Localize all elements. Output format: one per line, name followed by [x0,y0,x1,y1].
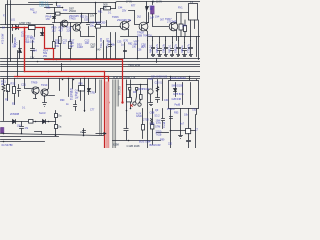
wire Q502 collector [129,11,135,22]
svg-text:TR10: TR10 [41,83,48,87]
svg-text:R67 0.1: R67 0.1 [169,44,172,53]
svg-text:R77: R77 [131,5,136,8]
svg-text:C25 01: C25 01 [155,82,163,84]
resistor R509 [53,42,56,49]
wire x195.3 [195,115,197,149]
highlight pink band [106,82,109,149]
svg-text:(7B): (7B) [91,92,96,94]
wire red V1 x24.6 [24,28,26,72]
junction dots on buses [17,58,139,142]
svg-text:10k: 10k [30,39,35,43]
wire x70 [70,23,72,60]
svg-text:2W: 2W [70,44,74,48]
transistor Q504 [169,22,178,31]
wire Q502 emitter down [121,30,138,37]
wire x17.3 [17,51,19,77]
vertical gray highlighted buses [100,80,132,149]
resistor R551 zigzag [156,87,158,92]
svg-text:4k7: 4k7 [33,12,38,15]
lower labels [1,75,175,111]
wire x137.7 down [137,37,139,59]
bus L2 y61.6 [1,61,201,63]
svg-text:Da: Da [58,124,62,128]
node J20 [56,59,58,61]
node J6c [95,2,97,4]
wire x73 [72,79,74,89]
capacitor C508 [87,23,90,25]
svg-text:C/7B BUS: C/7B BUS [173,94,184,96]
wire vertical left x10 [10,1,12,62]
svg-text:BLD/C3R: BLD/C3R [150,143,161,147]
node J8b [68,78,70,80]
ground G2 [179,131,183,139]
node J26 [17,76,19,78]
wire x68.4 [68,79,70,97]
svg-text:2k2: 2k2 [137,16,142,19]
node JD1 [35,121,37,123]
node J31 [130,108,132,110]
node J8c [84,110,86,112]
svg-text:R69 1u: R69 1u [181,45,184,53]
resistor R511 [69,42,72,49]
svg-text:C36: C36 [137,49,142,52]
wire x157 [156,59,158,63]
connector P501 (purple) [151,6,155,14]
wire q504 collector [177,13,189,23]
resistor R553 zigzag [151,119,153,125]
wire red bus D [15,76,109,78]
wire base Q501 [71,26,73,28]
capacitor C518 [189,41,193,57]
svg-text:C-call: C-call [163,121,166,128]
transistor Q506 [41,89,48,96]
svg-text:D50: D50 [101,20,106,24]
svg-text:PR-6d: PR-6d [142,88,149,91]
node J24 [96,58,98,60]
capacitor C511 [124,51,127,52]
node J1 [115,2,117,4]
node J10 [188,130,190,132]
svg-text:1/W: 1/W [46,18,51,21]
wire r520 [101,8,116,10]
resistor R546 [142,125,145,131]
svg-text:R99: R99 [160,139,165,142]
svg-text:C04: C04 [32,48,37,52]
top-left area components [13,25,44,77]
ground G3 [149,95,153,106]
wire top row verticals [153,77,197,115]
diode D506 [19,49,22,53]
wire lead y27.5 [0,27,14,29]
diode D51 [16,26,19,30]
node J11 [3,133,5,135]
node J25 [137,58,139,60]
wire x88 [88,14,90,37]
mid labels [0,33,146,67]
connector P502 (purple) [1,128,4,133]
node J34 [152,1,154,3]
transistor Q501 [73,24,80,31]
svg-text:0.70: 0.70 [156,122,161,125]
svg-text:4u7: 4u7 [180,123,185,126]
wire q504 emitter [176,31,178,41]
node J41 [189,76,191,78]
lamp L1 [133,102,136,105]
wire red V4 [122,60,124,103]
wire x143 [142,109,144,139]
component CN1 [55,114,58,118]
capacitor C528 [83,131,86,133]
capacitor C526 [20,122,24,134]
svg-text:10V: 10V [90,15,95,18]
red end blob V4 [121,101,123,103]
bus L6 y76.3 [1,76,201,78]
wire x95.5 [95,79,97,93]
wire r540 stubs [80,79,82,101]
resistor R540 [79,86,85,92]
svg-text:4k7: 4k7 [59,28,64,32]
module box U502 [169,81,199,109]
svg-text:2W02: 2W02 [69,9,77,13]
svg-text:2W: 2W [43,54,47,58]
svg-text:2W: 2W [91,45,95,49]
capacitor C521 [18,85,21,97]
transistor Q503 [139,22,148,31]
node J27 [128,140,130,142]
upper mid-right components [95,1,154,59]
svg-text:25V: 25V [122,10,127,13]
wire x89 [88,79,90,95]
wire net base Q502 [95,21,121,27]
node J6 [62,7,64,9]
node J23 [70,59,72,61]
node JD2 [48,121,50,123]
svg-text:Ga: Ga [58,113,62,117]
vertical arrow feed [146,2,148,7]
svg-text:GHST PBC: GHST PBC [19,22,31,25]
svg-text:S7M: S7M [155,125,160,129]
node J30 [126,110,128,112]
capacitor C515 [171,43,174,57]
wire x96 [96,23,98,59]
wire bus y137 [1,137,59,140]
right lower cluster [148,76,199,149]
bottom-left area [1,111,161,143]
svg-text:B+ 12.5V: B+ 12.5V [153,1,163,3]
wire red H1 y27.5 [13,27,45,29]
cap row labels [150,43,191,53]
box comp2 [136,88,138,91]
wire under relay [191,20,199,60]
resistor R508 [56,12,61,15]
top-center components [53,2,97,60]
gray band 1 [113,80,117,149]
wire arrow cont [147,2,153,23]
center-right mid cluster [127,80,148,149]
box R528 [179,24,183,30]
bus L7 y79 [1,78,201,80]
capacitor C516 [177,41,181,57]
wire x19.8 [19,41,21,59]
wire x84.2 [84,79,86,112]
svg-text:C2B R4B: C2B R4B [172,99,182,101]
svg-text:27C945: 27C945 [167,20,177,24]
svg-text:TRT_RB: TRT_RB [118,86,121,96]
ground G1b [43,97,47,107]
wire x125 [124,43,126,59]
node J2 [24,27,26,29]
svg-text:04 5478F: 04 5478F [2,143,14,147]
node J3 [34,27,36,29]
relay box K501 [189,4,198,21]
node J12 [3,141,5,143]
bottom labels [2,111,167,148]
extra scattered labels [2,5,199,146]
svg-text:C12B 2948: C12B 2948 [127,144,141,148]
box comp1 [129,88,131,91]
wire lamp net [130,91,141,103]
resistor R532 [13,87,16,94]
svg-text:TR09: TR09 [31,80,38,84]
wire stub x56.5 [56,3,58,6]
svg-text:L01: L01 [11,19,16,22]
svg-text:C77: C77 [90,109,95,112]
extra vertical nets mid [109,33,157,63]
capacitor C531 [156,95,160,103]
labels layer [13,0,194,48]
box DB1 [29,120,34,124]
right capacitor row [149,37,201,57]
wire x83.7 [83,129,85,136]
capacitor C504 [31,49,35,51]
capacitor C513 [158,43,162,57]
wire bus y133.6 [1,132,105,136]
right module labels [148,78,186,107]
node J15 [55,135,57,137]
box D530 [186,129,191,134]
svg-text:1W: 1W [55,44,59,48]
node J14 [83,135,85,137]
red tick mark [131,105,133,107]
node J9 [170,130,172,132]
capacitor C533 [162,109,165,129]
wire vertical left x7.3 [7,1,9,67]
wire cap stems top [153,37,197,57]
wire bus y140.4 [1,141,161,142]
svg-text:C70 47u: C70 47u [187,43,190,53]
capacitor C517 [183,43,187,57]
svg-text:RY1: RY1 [178,7,183,10]
svg-text:475 10W: 475 10W [0,33,4,44]
svg-text:53.2: 53.2 [155,114,161,118]
wire r531 [7,79,9,101]
resistor R531 [7,85,10,92]
top-right components [151,4,199,60]
svg-text:C51: C51 [46,7,51,10]
capacitor C522 [74,101,77,111]
wire x103.5 top [103,41,105,59]
wire Q501 collector [80,14,82,25]
svg-text:100: 100 [85,41,90,45]
resistor R520 [104,7,111,10]
wire p501 to base [153,14,169,27]
svg-text:47u: 47u [142,46,147,49]
resistor R507 body over trace [29,26,36,30]
svg-text:750Ω 1/2W: 750Ω 1/2W [128,64,141,67]
node J32 [140,84,142,86]
wire red V2 jog [45,28,54,60]
transistor Q505 [32,87,39,94]
node J8d [62,79,64,81]
svg-text:R95: R95 [174,112,179,115]
svg-text:4148: 4148 [77,45,83,49]
svg-text:R90: R90 [60,99,65,102]
wire top bus y13.8 [45,8,97,14]
svg-text:2SB 764 TN: 2SB 764 TN [137,34,152,38]
svg-text:C61: C61 [192,109,197,112]
resistor R529 [184,26,187,32]
gray band 0 [100,80,103,136]
wire x53.3 [53,25,55,60]
node J8e [73,79,75,81]
capacitor C510 [109,45,112,47]
node J6d [95,13,97,15]
wire x100 [100,9,102,23]
arrow head B+ [146,7,149,11]
diode D525 [13,120,16,124]
ground G1 [34,95,37,99]
diode D529 [174,89,177,92]
wire stub x42 [42,28,44,33]
bus L1 y59 [1,58,201,60]
diode D508 [53,17,56,19]
svg-text:6298: 6298 [113,143,119,147]
wire left col [4,67,8,121]
svg-text:GND: GND [136,114,142,118]
svg-text:R40: R40 [79,84,84,86]
capacitor C540 [124,129,129,131]
svg-text:10u: 10u [90,24,95,28]
transistor Q500 [61,20,68,27]
wire red bus A [45,59,123,61]
svg-text:4R: 4R [150,8,153,11]
horizontal link y131 [171,130,196,132]
svg-text:D12: D12 [63,9,68,12]
node J6b [56,2,58,4]
node J4 [60,22,62,24]
wire r528 [180,13,182,37]
wire x115.6 [115,33,117,59]
wire x180.3 low [180,109,182,131]
bus L5 y71.2 [1,71,201,73]
svg-text:TRC: TRC [148,79,153,81]
wire base Q503 [135,11,140,25]
wire net top-left [13,25,35,59]
wire x171 low [170,109,172,149]
svg-text:R45: R45 [138,87,143,91]
svg-text:007: 007 [160,19,165,22]
svg-text:PadB: PadB [175,105,181,107]
mid-center labels [70,84,95,101]
wire top bus y2 [29,2,201,9]
lamp L2 [138,103,141,106]
svg-text:C09: C09 [84,19,89,22]
wire y84.6 [127,84,148,86]
wire x147.5 [147,80,149,149]
node J22 [37,61,39,63]
svg-text:12V: 12V [182,25,187,28]
wire x107 top [106,47,108,59]
wire red bus C [25,71,105,73]
svg-text:SLC3: SLC3 [39,111,46,115]
red dot on V6 [107,101,109,103]
bus L3 y64 [1,64,201,66]
wire x188.5 low [188,109,190,129]
wire x55.6 seg [55,111,57,136]
resistor R521 [96,25,101,29]
component CN2 [55,125,58,129]
svg-text:C60: C60 [164,99,169,102]
node J8 [84,78,86,80]
mid-center cluster [60,64,96,112]
svg-text:POR VIA 3 R/W 2.2K: POR VIA 3 R/W 2.2K [113,76,136,79]
svg-text:SMB D2SB: SMB D2SB [172,85,184,87]
svg-text:12V: 12V [30,57,35,60]
wire x152 [152,109,154,145]
wire arrow into bus [96,132,107,135]
svg-text:C2A C/G3 0.22: C2A C/G3 0.22 [151,75,168,78]
wire q506 out [45,79,55,97]
wire r532 [14,79,16,105]
diode D505 [41,33,44,36]
wire Q501 emitter [80,31,95,37]
svg-text:220: 220 [168,143,173,146]
wire x147.5 top [147,41,149,59]
svg-text:3A: 3A [2,27,5,30]
node J33 [136,90,138,92]
wire q pair feed [25,79,32,89]
svg-text:SLB: SLB [150,122,155,126]
mid-left lower cluster [2,67,54,121]
meter box M1 [127,98,132,102]
highlighted red trace [13,28,133,149]
extra right wires [104,41,107,59]
node J5 [81,13,83,15]
svg-text:Hr: Hr [80,130,83,134]
svg-text:C/G3h 4wB 0M: C/G3h 4wB 0M [170,78,186,80]
svg-text:1k2: 1k2 [52,28,57,32]
capacitor C536 [187,134,191,149]
wire bus y24 left [1,23,101,25]
resistor R507 [29,26,36,30]
svg-text:C21: C21 [21,82,26,86]
wire x140.5 [140,85,142,95]
resistor R530 zigzag [2,85,5,92]
capacitor C514 [165,41,168,57]
node J13 [21,133,23,135]
node J21 [48,71,50,73]
svg-text:220: 220 [67,28,72,32]
wire x54 [54,8,56,23]
svg-text:BUS GN#: BUS GN# [139,139,151,143]
wire x13 left stub [12,35,14,43]
svg-text:D40: D40 [96,49,101,52]
svg-text:330: 330 [132,46,137,49]
svg-text:TICB: TICB [156,133,162,137]
wire x60.3 [60,23,62,60]
wire red V6 [108,77,110,149]
resistor R510 [59,37,62,44]
